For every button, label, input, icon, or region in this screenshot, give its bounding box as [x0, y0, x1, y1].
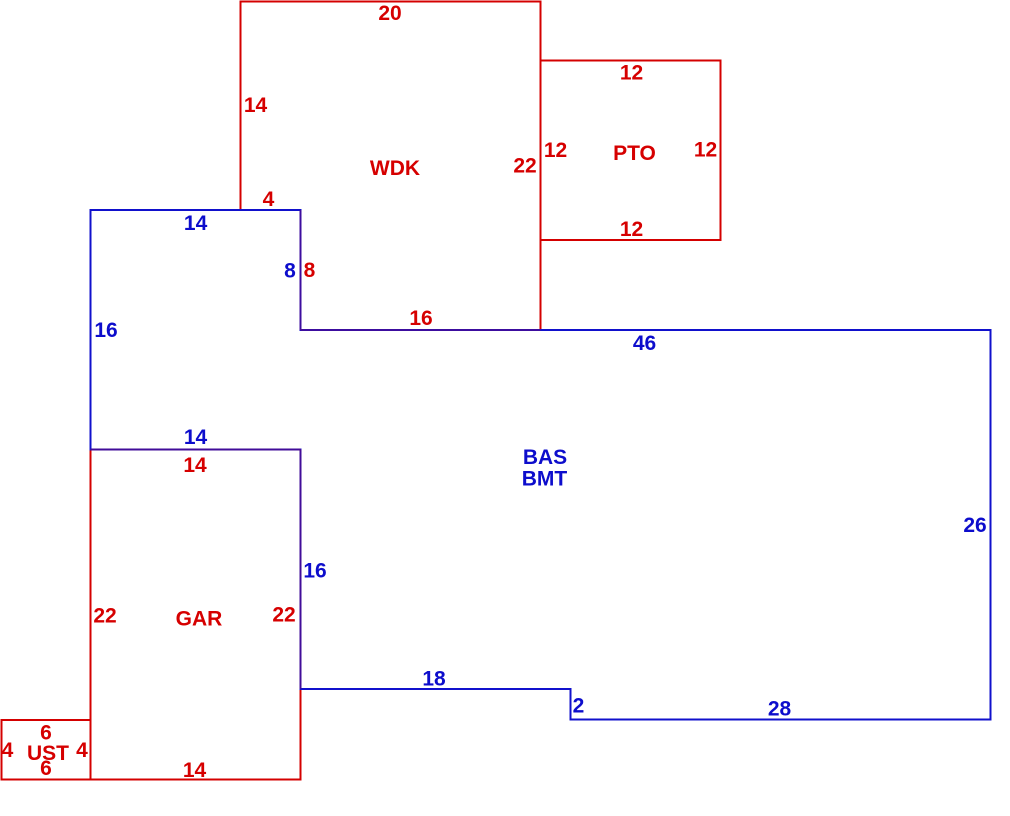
svg-text:22: 22: [272, 604, 295, 627]
svg-text:14: 14: [183, 454, 207, 477]
BAS BMT basement outline: [91, 210, 991, 720]
svg-text:GAR: GAR: [176, 608, 223, 631]
WDK deck outline: [241, 2, 541, 331]
svg-text:22: 22: [513, 155, 536, 178]
svg-text:6: 6: [40, 757, 52, 780]
svg-text:8: 8: [284, 259, 296, 282]
svg-text:16: 16: [409, 307, 432, 330]
svg-text:18: 18: [422, 668, 446, 691]
svg-text:14: 14: [184, 212, 208, 235]
svg-text:14: 14: [244, 94, 268, 117]
svg-text:PTO: PTO: [613, 142, 656, 165]
wire overlap: GAR right edge over BAS (x=300.5, y 449.5-689): [300, 450, 302, 690]
svg-text:BMT: BMT: [522, 468, 568, 491]
svg-text:12: 12: [544, 139, 567, 162]
svg-text:BAS: BAS: [523, 446, 567, 469]
wire overlap: WDK bottom edge over BAS 46-line (y=330, x 300.5-540.5): [301, 329, 541, 331]
svg-text:8: 8: [304, 259, 316, 282]
svg-text:4: 4: [2, 739, 14, 762]
wire overlap: WDK step edge over BAS (x=300.5, y 210-330): [300, 210, 302, 330]
svg-text:4: 4: [76, 739, 88, 762]
svg-text:14: 14: [184, 426, 208, 449]
svg-text:2: 2: [573, 695, 585, 718]
svg-text:26: 26: [963, 514, 986, 537]
svg-text:12: 12: [694, 139, 717, 162]
svg-text:12: 12: [620, 218, 643, 241]
svg-text:46: 46: [633, 332, 656, 355]
UST utility shed outline: [2, 720, 91, 780]
svg-text:4: 4: [263, 188, 275, 211]
GAR garage outline: [91, 450, 301, 780]
svg-text:WDK: WDK: [370, 157, 420, 180]
svg-text:14: 14: [183, 759, 207, 782]
svg-text:22: 22: [93, 605, 116, 628]
svg-text:16: 16: [94, 319, 117, 342]
PTO patio outline: [541, 61, 721, 241]
wire overlap: GAR top edge over BAS (y=449.5): [91, 449, 301, 451]
svg-text:16: 16: [303, 560, 326, 583]
svg-text:12: 12: [620, 62, 643, 85]
svg-text:20: 20: [378, 2, 401, 25]
svg-text:28: 28: [768, 698, 792, 721]
